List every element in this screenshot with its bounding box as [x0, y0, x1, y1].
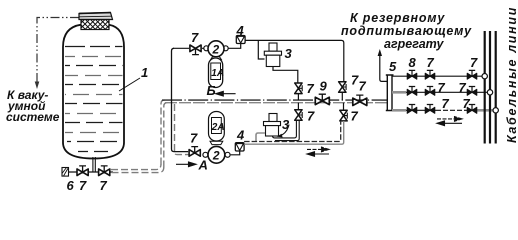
manifold 5	[386, 75, 394, 111]
svg-text:7: 7	[438, 80, 446, 95]
valve 7 (tank drain right)	[99, 166, 110, 176]
valve 7 (bottom branch 1)	[407, 105, 417, 114]
lower discharge line pair to right valves	[244, 121, 341, 142]
valve 7 (inline on main, before manifold)	[353, 95, 367, 105]
device 3 (top): cap, flange, body	[264, 43, 281, 67]
svg-text:9: 9	[320, 79, 328, 94]
pump A flanges	[203, 152, 208, 157]
tank cap body (cross-hatched)	[81, 20, 109, 30]
valve 7 (upper right vertical)	[339, 82, 347, 93]
cable line 2	[489, 31, 491, 144]
valve 8	[407, 70, 417, 79]
check valve 4 (bottom)	[235, 143, 244, 151]
gray suction line from tank (double dashed, vertical up to main)	[161, 100, 167, 167]
svg-text:Кабельные линии: Кабельные линии	[505, 6, 518, 143]
gray suction line from tank (double dashed, horizontal part)	[111, 164, 164, 173]
svg-text:К резервному: К резервному	[350, 11, 445, 25]
bottom branch line	[392, 109, 436, 111]
svg-text:7: 7	[79, 178, 87, 193]
pump B branch line	[173, 44, 241, 49]
svg-text:4: 4	[236, 128, 245, 143]
end plug 6	[62, 168, 69, 177]
svg-text:7: 7	[351, 109, 359, 124]
flow arrows (bottom middle)	[307, 147, 329, 152]
connection to main line	[341, 92, 343, 100]
connection to main line	[297, 94, 299, 101]
svg-text:7: 7	[100, 178, 108, 193]
line to reserve feeding unit (arrow up)	[380, 55, 388, 81]
pump B flanges	[204, 46, 209, 51]
vacuum dash-dot line to vacuum system	[37, 18, 79, 83]
svg-text:5: 5	[389, 59, 397, 74]
svg-text:7: 7	[459, 80, 467, 95]
connection main to lower-left valve	[297, 103, 299, 110]
svg-text:7: 7	[191, 30, 199, 45]
check valve 4 (top)	[236, 36, 245, 44]
valve 9 (inline on main)	[315, 94, 329, 104]
pump A discharge stub	[231, 151, 240, 155]
double pipe from device 3 bottom to lower-left valve	[273, 120, 300, 140]
valve 7 (middle branch 2)	[425, 87, 435, 96]
pump A circle 2	[208, 146, 225, 163]
riser pump B (black)	[172, 48, 189, 151]
svg-text:7: 7	[463, 96, 471, 111]
valve 7 (upper left vertical)	[295, 83, 303, 94]
node circle middle branch	[487, 90, 492, 95]
node circle top branch	[482, 74, 487, 79]
flow label A with arrow	[176, 162, 196, 167]
svg-text:подпитывающему: подпитывающему	[341, 24, 472, 38]
tank 1 liquid level dashed lines	[65, 47, 123, 152]
svg-text:2А: 2А	[211, 122, 225, 133]
svg-text:7: 7	[307, 109, 315, 124]
tank bottom valve line	[69, 171, 114, 173]
arrow head down (vacuum line)	[35, 82, 40, 90]
svg-text:А: А	[198, 158, 208, 173]
label 1 with leader	[119, 78, 140, 91]
branch down to device 3 (top)	[258, 40, 264, 59]
device 3 (bottom): cap, flange, body	[264, 114, 281, 137]
node circle bottom branch	[493, 108, 498, 113]
pump B motor capsule 1A	[211, 57, 222, 60]
riser pump A suction (gray dashed companion)	[175, 104, 190, 155]
top branch line	[392, 75, 482, 77]
svg-text:системе: системе	[6, 110, 60, 124]
pipe from device 3 down to valve 7	[273, 67, 298, 84]
cable line 3	[495, 31, 497, 144]
main line (dark dash-dot)	[162, 99, 387, 101]
svg-text:Б: Б	[207, 83, 216, 98]
pump A motor capsule 2A	[210, 141, 223, 144]
valve 7 (middle branch 3)	[467, 87, 477, 96]
svg-text:7: 7	[427, 55, 435, 70]
valve 7 (lower right vertical)	[340, 110, 348, 121]
valve 7 (top branch right)	[467, 70, 477, 79]
svg-text:7: 7	[442, 96, 450, 111]
svg-text:2: 2	[212, 149, 220, 163]
valve 7 (middle branch 1)	[407, 87, 417, 96]
svg-text:1А: 1А	[211, 68, 224, 79]
tank 1 shell	[63, 25, 124, 159]
valve 7 (bottom branch 3)	[467, 105, 477, 114]
cable line 1	[484, 31, 486, 144]
svg-text:7: 7	[470, 55, 478, 70]
svg-text:8: 8	[409, 55, 417, 70]
svg-text:7: 7	[190, 131, 198, 146]
line from check 4 to right riser	[245, 40, 344, 81]
svg-text:3: 3	[285, 46, 293, 61]
curved arrow to device 3	[280, 125, 290, 137]
valve 7 (pump B suction) stem down	[190, 45, 201, 55]
valve 7 (bottom branch 2)	[425, 105, 435, 114]
svg-text:агрегату: агрегату	[384, 37, 444, 51]
middle branch line	[392, 91, 487, 93]
tank cap lid (hatched)	[79, 13, 113, 20]
valve 7 (tank drain left)	[77, 166, 88, 176]
flow arrows (right)	[437, 117, 462, 122]
svg-text:1: 1	[141, 65, 148, 80]
svg-text:2: 2	[212, 43, 220, 57]
gray stub to device 3 bottom left	[256, 133, 265, 142]
svg-text:6: 6	[67, 178, 75, 193]
main line (gray companion)	[165, 102, 387, 104]
pump B circle 2	[208, 41, 224, 57]
valve 7 (lower left vertical)	[295, 110, 303, 121]
svg-text:7: 7	[307, 81, 315, 96]
svg-text:7: 7	[359, 79, 367, 94]
pump A suction valve 7	[189, 147, 200, 157]
tank drain pipe (double vertical)	[93, 157, 95, 172]
connection main to lower-right valve	[343, 103, 345, 111]
svg-text:4: 4	[236, 23, 245, 38]
valve 7 (top branch)	[425, 70, 435, 79]
